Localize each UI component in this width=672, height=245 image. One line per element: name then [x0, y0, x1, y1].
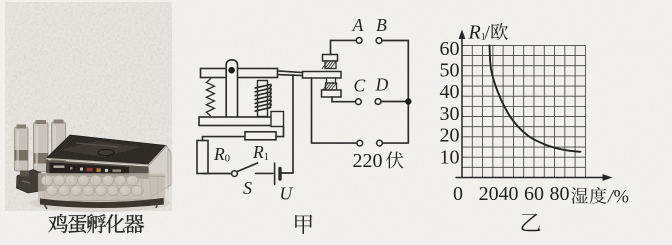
mains terminal left — [357, 140, 363, 146]
wire D to junction — [381, 101, 408, 103]
acrylic veil over eggs — [38, 173, 168, 201]
x axis — [456, 177, 604, 179]
terminal C — [356, 99, 362, 105]
caption 鸡蛋孵化器 — [49, 214, 145, 233]
wire R0 bottom to switch — [203, 173, 232, 175]
switch blade — [237, 163, 258, 172]
relay base — [199, 117, 277, 126]
bottle 1 — [15, 125, 29, 172]
pivot dot — [228, 67, 235, 74]
incubator top face — [46, 135, 167, 165]
armature strip to contact plate — [278, 71, 304, 76]
wire battery to riser — [282, 172, 293, 174]
grid — [462, 45, 585, 177]
wire switch to battery — [256, 172, 274, 174]
coil terminal block — [271, 112, 284, 127]
wire top cap to A — [331, 40, 357, 54]
x tick labels — [453, 183, 570, 205]
label 220伏 — [353, 150, 404, 172]
contact top cap — [323, 55, 338, 62]
terminal A — [356, 38, 362, 44]
coil core — [258, 81, 268, 117]
battery long plate — [274, 163, 276, 185]
photo background — [5, 2, 172, 211]
label 湿度/% — [571, 187, 629, 207]
battery short plate — [278, 169, 281, 180]
pivot post — [226, 60, 237, 117]
wire battery riser — [292, 75, 294, 173]
egg tray — [38, 174, 165, 202]
wire bottom plate to C — [332, 97, 355, 102]
resistor R1 — [245, 132, 276, 140]
resistor R0 — [197, 141, 208, 174]
wire plate down to mains — [312, 78, 357, 143]
shadow under machine — [30, 194, 170, 212]
wire R0 top to R1 left — [203, 137, 246, 141]
contact hatched block lower — [323, 83, 337, 90]
junction dot — [405, 98, 411, 104]
coil winding — [255, 84, 271, 111]
wire B to D junction to mains right — [382, 41, 408, 144]
top face front rims — [46, 146, 167, 166]
contact lower block — [327, 78, 336, 83]
spring — [206, 79, 214, 116]
label R1/欧 — [468, 22, 508, 44]
relay armature bar — [201, 69, 278, 78]
control panel band — [46, 160, 149, 179]
y tick labels — [440, 38, 460, 168]
transparent cover / frame — [149, 146, 172, 197]
terminal B — [376, 38, 382, 44]
mains terminal right — [377, 140, 383, 146]
bottle 2 — [34, 120, 49, 172]
contact bottom plate — [322, 90, 342, 97]
y axis — [461, 34, 463, 178]
contact hatched block upper — [322, 61, 336, 69]
wire coil block to R1 — [277, 127, 284, 137]
switch S pivot — [232, 171, 238, 177]
R1 curve — [490, 46, 581, 152]
contact middle plate — [303, 72, 342, 79]
bottle 3 — [52, 120, 66, 165]
label 甲 — [295, 215, 312, 234]
terminal D — [375, 99, 381, 105]
label 乙 — [521, 214, 540, 232]
tray base rim — [40, 198, 164, 208]
humidifier pump — [17, 170, 60, 194]
